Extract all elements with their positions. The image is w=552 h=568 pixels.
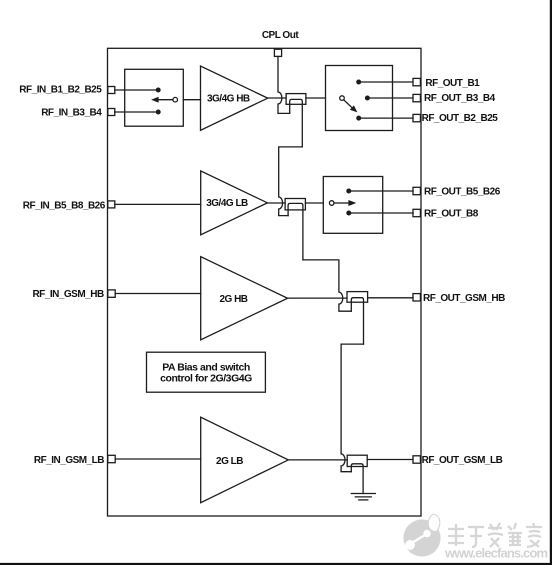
coupler CP4 xyxy=(347,455,367,493)
switch SW2 contact B2_B25 xyxy=(356,116,361,121)
switch SW3 common pole xyxy=(329,201,334,206)
pin RF_OUT_GSM_HB xyxy=(413,294,420,301)
wire CP3 to pin RF_OUT_GSM_HB xyxy=(368,297,413,299)
svg-text:RF_OUT_GSM_HB: RF_OUT_GSM_HB xyxy=(423,293,505,304)
coupler chain wire CP1 to CP2 xyxy=(279,147,303,216)
coupler chain wire CP3 to CP4 xyxy=(341,344,363,472)
switch SW1 common pole xyxy=(173,97,178,102)
wire A4 output to coupler CP4 xyxy=(288,459,347,461)
wire RF_IN_B3_B4 to switch SW1 contact xyxy=(115,111,158,113)
svg-text:2G HB: 2G HB xyxy=(219,294,247,305)
image frame bottom border xyxy=(0,563,552,565)
pin RF_OUT_B2_B25 xyxy=(413,114,420,121)
wire SW2 to pin RF_OUT_B2_B25 xyxy=(359,117,413,119)
switch SW3 contact B8 xyxy=(346,211,351,216)
pin CPL Out xyxy=(274,49,281,56)
pin RF_IN_GSM_LB xyxy=(108,455,115,462)
amplifier A3 2G HB xyxy=(201,257,288,340)
elecfans watermark logo xyxy=(403,514,440,557)
wire CPL Out to coupler CP1 coupled port xyxy=(278,56,290,113)
switch SW3 contact B5_B26 xyxy=(346,189,351,194)
elecfans watermark chinese characters xyxy=(448,523,542,547)
wire SW1 to amplifier A1 input xyxy=(183,99,200,101)
pin RF_OUT_B8 xyxy=(413,209,420,216)
svg-text:RF_OUT_GSM_LB: RF_OUT_GSM_LB xyxy=(422,455,503,466)
switch SW1 contact B1_B2_B25 xyxy=(156,88,161,93)
svg-text:RF_IN_B5_B8_B26: RF_IN_B5_B8_B26 xyxy=(23,200,106,211)
svg-text:RF_OUT_B2_B25: RF_OUT_B2_B25 xyxy=(422,113,499,124)
svg-text:RF_OUT_B1: RF_OUT_B1 xyxy=(425,78,480,89)
switch SW2 contact B3_B4 xyxy=(365,96,370,101)
coupler chain wire CP2 to CP3 xyxy=(303,260,351,311)
switch SW2 contact B1 xyxy=(356,80,361,85)
output switch SW2 box xyxy=(326,66,393,131)
svg-text:2G LB: 2G LB xyxy=(216,456,243,467)
image frame right border xyxy=(550,0,552,565)
svg-text:RF_OUT_B3_B4: RF_OUT_B3_B4 xyxy=(424,93,496,104)
coupler CP2 xyxy=(285,199,305,260)
input switch SW1 box xyxy=(125,69,184,126)
wire A2 output to coupler CP2 xyxy=(267,202,285,204)
wire CP4 to pin RF_OUT_GSM_LB xyxy=(367,459,413,461)
wire SW3 to pin RF_OUT_B5_B26 xyxy=(349,190,413,192)
svg-text:CPL Out: CPL Out xyxy=(262,30,299,41)
svg-text:RF_IN_B1_B2_B25: RF_IN_B1_B2_B25 xyxy=(19,85,102,96)
switch SW1 contact B3_B4 xyxy=(156,110,161,115)
svg-text:RF_OUT_B5_B26: RF_OUT_B5_B26 xyxy=(424,186,501,197)
wire SW2 to pin RF_OUT_B1 xyxy=(359,81,413,83)
svg-text:3G/4G LB: 3G/4G LB xyxy=(206,198,248,209)
pin RF_OUT_GSM_LB xyxy=(413,456,420,463)
switch SW2 common pole xyxy=(340,96,345,101)
module boundary xyxy=(108,48,422,516)
pin RF_IN_GSM_HB xyxy=(108,290,115,297)
wire CP2 to output switch SW3 xyxy=(305,202,323,204)
amplifier A4 2G LB xyxy=(201,417,289,503)
svg-text:RF_OUT_B8: RF_OUT_B8 xyxy=(424,208,479,219)
svg-text:www.elecfans.com: www.elecfans.com xyxy=(444,546,548,561)
output switch SW3 box xyxy=(323,177,382,234)
pin RF_OUT_B1 xyxy=(413,78,420,85)
svg-text:RF_IN_B3_B4: RF_IN_B3_B4 xyxy=(41,107,102,118)
switch SW1 wiper arrow xyxy=(151,97,173,103)
pin RF_IN_B3_B4 xyxy=(108,109,115,116)
switch SW3 wiper arrow xyxy=(334,200,356,206)
wire RF_IN_B5_B8_B26 to amplifier A2 xyxy=(115,203,201,205)
wire RF_IN_GSM_LB to amplifier A4 xyxy=(115,458,201,460)
svg-text:RF_IN_GSM_LB: RF_IN_GSM_LB xyxy=(34,455,104,466)
coupler CP3 xyxy=(347,292,368,345)
svg-text:RF_IN_GSM_HB: RF_IN_GSM_HB xyxy=(32,289,104,300)
wire A1 output to coupler CP1 xyxy=(268,97,286,99)
wire SW2 to pin RF_OUT_B3_B4 xyxy=(367,97,413,99)
pin RF_OUT_B5_B26 xyxy=(413,187,420,194)
switch SW2 wiper arrow xyxy=(344,100,358,113)
pin RF_OUT_B3_B4 xyxy=(413,94,420,101)
pin RF_IN_B1_B2_B25 xyxy=(108,87,115,94)
svg-text:control for 2G/3G4G: control for 2G/3G4G xyxy=(160,373,252,385)
control block PA Bias xyxy=(147,352,266,392)
amplifier A2 3G/4G LB xyxy=(201,171,268,235)
wire CP1 to output switch SW2 xyxy=(306,97,326,99)
wire RF_IN_GSM_HB to amplifier A3 xyxy=(115,293,201,295)
svg-text:3G/4G HB: 3G/4G HB xyxy=(207,94,250,105)
ground xyxy=(351,494,375,500)
pin RF_IN_B5_B8_B26 xyxy=(108,201,115,208)
wire RF_IN_B1_B2_B25 to switch SW1 contact xyxy=(115,89,158,91)
amplifier A1 3G/4G HB xyxy=(201,66,268,130)
wire SW3 to pin RF_OUT_B8 xyxy=(349,212,413,214)
coupler CP1 xyxy=(286,94,306,147)
wire A3 output to coupler CP3 xyxy=(288,297,347,299)
